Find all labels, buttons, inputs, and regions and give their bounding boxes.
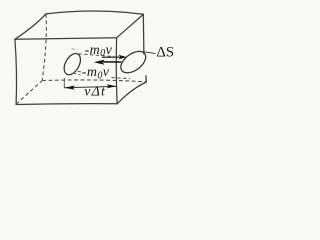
svg-text:-m0v: -m0v (82, 65, 110, 81)
cylinder left end ellipse (61, 51, 84, 78)
box front bottom edge (16, 103, 117, 106)
leader line to dS label (139, 51, 156, 53)
area element ellipse dS on wall (117, 47, 150, 77)
cylinder top side (dashed) (79, 54, 115, 57)
small dash left of lower label (78, 70, 81, 73)
svg-text:vΔt: vΔt (84, 85, 106, 100)
dimension left arrowhead (65, 85, 75, 89)
cylinder bottom side left dashes (73, 73, 81, 75)
dimension line v*dt (65, 86, 117, 87)
box back top edge (46, 11, 144, 14)
box bottom-left oblique edge (hidden, dashed) (16, 81, 42, 105)
box bottom-right oblique edge (117, 82, 146, 104)
box back left vertical edge (hidden, dashed) (42, 14, 46, 80)
arrow m0v head (118, 55, 126, 60)
box top-left oblique edge (15, 14, 46, 39)
small dash left of upper label (72, 48, 79, 51)
box front top edge (15, 38, 117, 40)
box back right vertical edge (142, 14, 145, 54)
svg-text:ΔS: ΔS (156, 44, 174, 60)
box front left edge (15, 39, 17, 104)
box back right vertical edge lower fragment (145, 76, 148, 82)
box front right edge (wall) (115, 38, 118, 104)
box back bottom edge (hidden, dashed) (42, 80, 146, 82)
cylinder bottom side right dashes (112, 78, 131, 79)
box top-right oblique edge (117, 14, 144, 37)
arrow -m0v shaft (reflected momentum, pointing left) (103, 61, 121, 63)
dimension right arrowhead (107, 84, 117, 88)
arrow -m0v head (94, 60, 105, 65)
dimension extension line below left ellipse (63, 78, 65, 89)
arrow m0v shaft (incident momentum, pointing right) (102, 56, 120, 58)
svg-text:-m0v: -m0v (85, 43, 113, 59)
